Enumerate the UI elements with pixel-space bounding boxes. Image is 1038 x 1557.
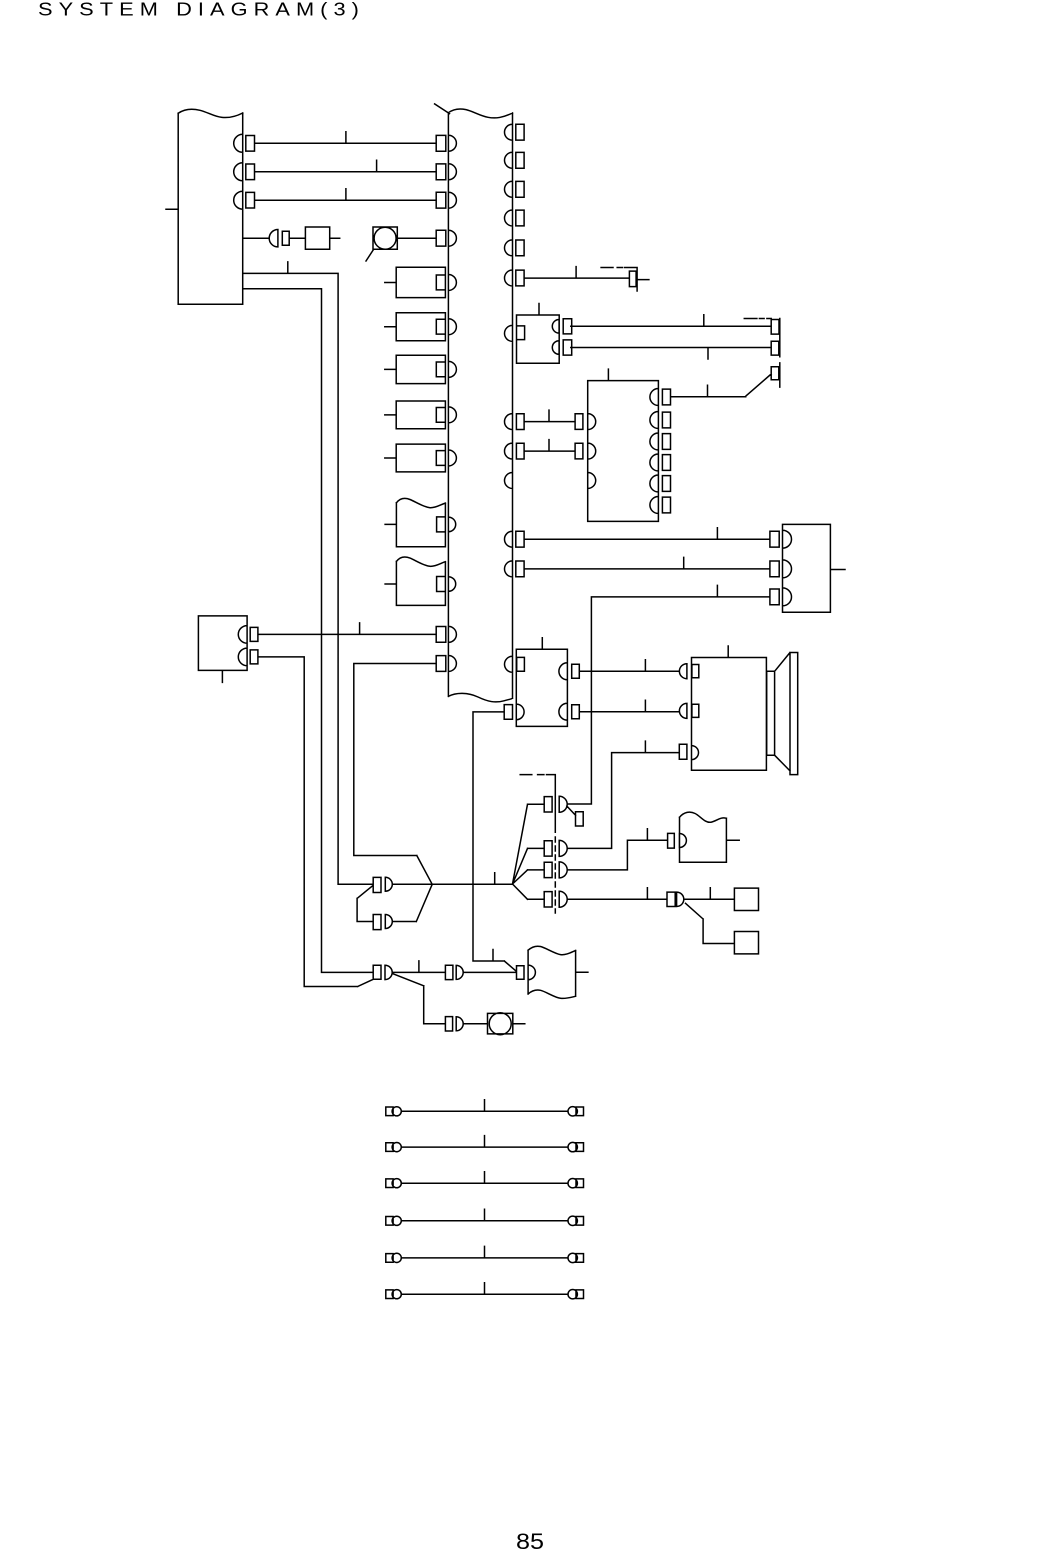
- svg-text:85: 85: [516, 1529, 544, 1554]
- svg-text:SYSTEM DIAGRAM(3): SYSTEM DIAGRAM(3): [38, 0, 365, 20]
